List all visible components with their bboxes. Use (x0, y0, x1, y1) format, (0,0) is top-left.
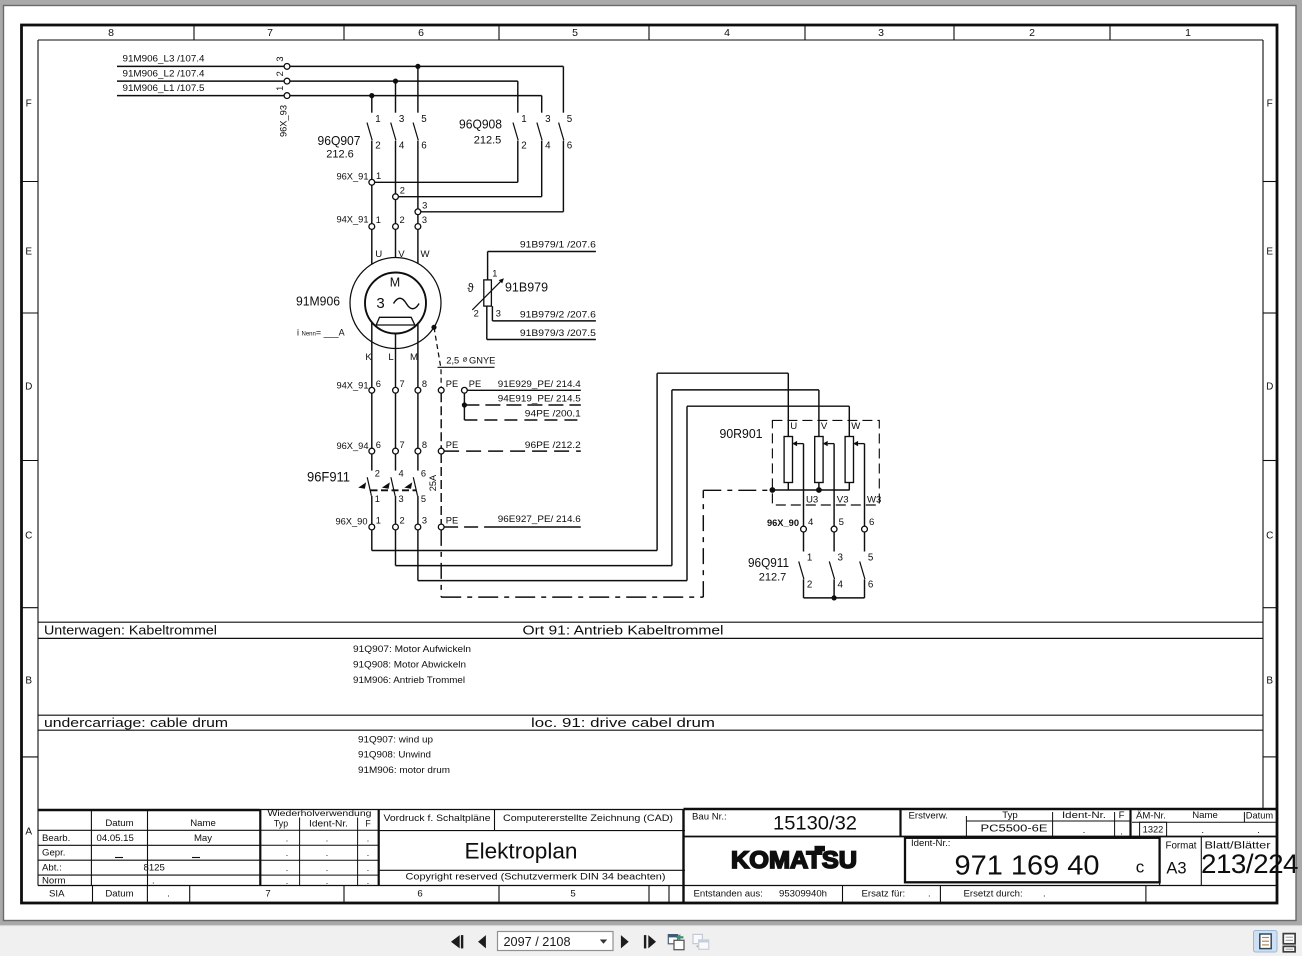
svg-text:2097 / 2108: 2097 / 2108 (504, 934, 571, 949)
svg-text:8: 8 (422, 379, 427, 389)
svg-text:91B979: 91B979 (505, 280, 548, 295)
svg-text:.: . (1201, 825, 1204, 836)
svg-text:3: 3 (496, 309, 501, 319)
svg-text:1: 1 (376, 171, 381, 181)
svg-text:Wiederholverwendung: Wiederholverwendung (268, 809, 373, 818)
svg-text:.: . (326, 848, 328, 858)
svg-text:E: E (1266, 247, 1273, 258)
svg-text:.: . (152, 875, 155, 886)
svg-text:94E919_PE/ 214.5: 94E919_PE/ 214.5 (498, 394, 581, 404)
svg-text:SIA: SIA (49, 888, 65, 899)
svg-text:4: 4 (724, 27, 730, 39)
svg-text:.: . (1043, 888, 1046, 899)
svg-text:8: 8 (422, 440, 427, 450)
svg-text:PC5500-6E: PC5500-6E (981, 824, 1049, 835)
svg-text:K: K (365, 352, 372, 363)
svg-text:6: 6 (421, 141, 427, 152)
svg-text:91M906: Antrieb Trommel: 91M906: Antrieb Trommel (353, 675, 465, 685)
svg-text:7: 7 (400, 379, 405, 389)
svg-text:Datum: Datum (105, 888, 133, 899)
svg-text:.: . (286, 848, 288, 858)
svg-text:2: 2 (275, 71, 285, 76)
svg-text:7: 7 (265, 888, 270, 899)
svg-text:D: D (1266, 382, 1273, 393)
svg-text:Ident-Nr.: Ident-Nr. (1062, 810, 1106, 821)
svg-text:1: 1 (807, 553, 812, 564)
svg-text:2: 2 (375, 468, 380, 478)
svg-text:Typ: Typ (274, 818, 288, 828)
svg-text:91M906_L2 /107.4: 91M906_L2 /107.4 (123, 68, 205, 78)
svg-text:Typ: Typ (1002, 810, 1017, 821)
svg-text:5: 5 (421, 114, 427, 125)
svg-text:4: 4 (399, 141, 405, 152)
svg-text:1: 1 (376, 516, 381, 526)
svg-text:25A: 25A (428, 474, 438, 491)
svg-text:91B979/1 /207.6: 91B979/1 /207.6 (520, 240, 596, 250)
svg-text:.: . (367, 863, 369, 873)
svg-text:D: D (25, 382, 32, 393)
svg-text:96Q911: 96Q911 (748, 555, 789, 570)
svg-text:1: 1 (275, 86, 285, 91)
svg-text:96X_93: 96X_93 (279, 105, 289, 137)
svg-text:96X_94: 96X_94 (336, 441, 368, 451)
svg-text:M: M (390, 276, 400, 290)
svg-text:.: . (167, 888, 170, 899)
svg-text:6: 6 (869, 517, 874, 528)
svg-text:Name: Name (1192, 810, 1218, 821)
svg-text:.: . (1083, 825, 1086, 836)
svg-text:F: F (1119, 810, 1125, 821)
svg-text:PE: PE (446, 379, 458, 389)
svg-text:Bearb.: Bearb. (42, 833, 70, 844)
svg-text:.: . (286, 876, 288, 886)
svg-text:A3: A3 (1166, 859, 1186, 877)
svg-text:F: F (26, 99, 32, 110)
svg-text:95309940h: 95309940h (779, 888, 827, 899)
svg-text:PE: PE (446, 516, 458, 526)
svg-text:5: 5 (421, 494, 426, 504)
svg-text:96F911: 96F911 (307, 469, 350, 485)
svg-text:C: C (25, 531, 32, 542)
svg-text:PE: PE (446, 440, 458, 450)
svg-text:W3: W3 (867, 494, 881, 505)
svg-text:.: . (367, 876, 369, 886)
svg-text:Elektroplan: Elektroplan (465, 838, 578, 863)
svg-text:KOMATSU: KOMATSU (731, 847, 857, 874)
svg-text:6: 6 (376, 440, 381, 450)
svg-text:91B979/3 /207.5: 91B979/3 /207.5 (520, 328, 596, 338)
svg-text:Entstanden aus:: Entstanden aus: (694, 888, 763, 899)
svg-text:91B979/2 /207.6: 91B979/2 /207.6 (520, 309, 596, 319)
svg-text:91E929_PE/ 214.4: 91E929_PE/ 214.4 (498, 379, 581, 389)
svg-text:1: 1 (375, 494, 380, 504)
svg-text:91Q908: Motor Abwickeln: 91Q908: Motor Abwickeln (353, 660, 466, 670)
svg-text:96Q908: 96Q908 (459, 117, 502, 132)
svg-text:⌀: ⌀ (463, 354, 468, 363)
svg-text:5: 5 (567, 114, 573, 125)
svg-text:4: 4 (545, 141, 551, 152)
svg-text:2: 2 (375, 141, 380, 152)
svg-text:96X_91: 96X_91 (336, 172, 368, 182)
svg-text:4: 4 (838, 579, 844, 590)
svg-text:2: 2 (521, 141, 526, 152)
svg-text:2: 2 (474, 309, 479, 319)
svg-text:212.6: 212.6 (326, 149, 354, 161)
svg-text:B: B (25, 676, 32, 687)
svg-text:.: . (928, 888, 931, 899)
svg-text:Computererstellte Zeichnung (C: Computererstellte Zeichnung (CAD) (503, 812, 673, 823)
svg-text:Vordruck f. Schaltpläne: Vordruck f. Schaltpläne (384, 812, 491, 823)
svg-text:6: 6 (868, 579, 874, 590)
svg-text:Erstverw.: Erstverw. (909, 811, 948, 822)
svg-text:Ident-Nr.: Ident-Nr. (309, 818, 348, 828)
svg-text:Gepr.: Gepr. (42, 848, 65, 859)
svg-text:Ident-Nr.:: Ident-Nr.: (911, 838, 950, 849)
svg-text:E: E (25, 247, 32, 258)
svg-text:3: 3 (838, 553, 844, 564)
svg-text:Abt.:: Abt.: (42, 862, 62, 873)
svg-text:1: 1 (376, 215, 381, 225)
svg-text:2,5: 2,5 (446, 356, 459, 366)
svg-text:Unterwagen: Kabeltrommel: Unterwagen: Kabeltrommel (44, 623, 217, 637)
svg-text:2: 2 (400, 185, 405, 195)
svg-text:1: 1 (521, 114, 526, 125)
svg-text:Ersetzt durch:: Ersetzt durch: (964, 888, 1023, 899)
svg-text:96X_90: 96X_90 (335, 517, 367, 527)
svg-text:2: 2 (807, 579, 812, 590)
svg-text:6: 6 (421, 468, 426, 478)
svg-text:V3: V3 (837, 494, 849, 505)
svg-text:U: U (375, 249, 382, 260)
svg-text:94X_91: 94X_91 (336, 215, 368, 225)
svg-text:91Q908: Unwind: 91Q908: Unwind (358, 749, 431, 759)
svg-text:1: 1 (492, 268, 497, 278)
svg-text:96X_90: 96X_90 (767, 518, 799, 528)
svg-text:1322: 1322 (1143, 825, 1164, 835)
svg-text:91M906: 91M906 (296, 294, 340, 309)
svg-text:96E927_PE/ 214.6: 96E927_PE/ 214.6 (498, 514, 581, 524)
svg-text:ÄM-Nr.: ÄM-Nr. (1136, 811, 1166, 822)
svg-text:Ort 91: Antrieb Kabeltrommel: Ort 91: Antrieb Kabeltrommel (523, 623, 724, 637)
svg-text:F: F (1267, 99, 1273, 110)
svg-text:.: . (326, 833, 328, 843)
svg-text:L: L (388, 352, 394, 363)
svg-text:.: . (326, 863, 328, 873)
svg-text:7: 7 (400, 440, 405, 450)
svg-text:A: A (25, 827, 32, 838)
svg-text:3: 3 (399, 114, 405, 125)
svg-text:6: 6 (376, 379, 381, 389)
svg-text:6: 6 (567, 141, 573, 152)
svg-text:212.7: 212.7 (759, 572, 787, 584)
svg-text:.: . (367, 833, 369, 843)
svg-text:.: . (286, 833, 288, 843)
svg-text:U: U (790, 421, 797, 432)
svg-text:undercarriage: cable drum: undercarriage: cable drum (44, 716, 228, 730)
svg-text:6: 6 (417, 888, 422, 899)
svg-text:M: M (410, 352, 418, 363)
svg-text:C: C (1266, 531, 1273, 542)
svg-text:PE: PE (469, 379, 481, 389)
svg-text:213/224: 213/224 (1201, 849, 1298, 879)
svg-text:8125: 8125 (144, 862, 165, 873)
svg-text:4: 4 (808, 517, 814, 528)
svg-text:2: 2 (400, 516, 405, 526)
svg-text:GNYE: GNYE (469, 356, 495, 366)
svg-text:04.05.15: 04.05.15 (97, 833, 134, 844)
svg-text:91Q907: wind up: 91Q907: wind up (358, 734, 433, 744)
svg-text:3: 3 (878, 27, 884, 39)
svg-text:91M906_L1 /107.5: 91M906_L1 /107.5 (123, 83, 205, 93)
svg-text:c: c (1136, 858, 1145, 877)
svg-text:1: 1 (375, 114, 380, 125)
svg-text:5: 5 (868, 553, 874, 564)
svg-text:5: 5 (570, 888, 575, 899)
svg-text:Norm: Norm (42, 875, 65, 886)
svg-text:Format: Format (1165, 840, 1196, 851)
svg-text:2: 2 (1029, 27, 1035, 39)
svg-text:96PE /212.2: 96PE /212.2 (525, 440, 581, 450)
svg-text:V: V (821, 421, 828, 432)
svg-text:Datum: Datum (105, 818, 133, 829)
svg-text:3: 3 (422, 516, 427, 526)
svg-text:loc. 91: drive cabel drum: loc. 91: drive cabel drum (531, 716, 715, 730)
svg-text:2: 2 (400, 215, 405, 225)
svg-text:91M906_L3 /107.4: 91M906_L3 /107.4 (123, 54, 205, 64)
svg-text:971 169 40: 971 169 40 (955, 850, 1100, 881)
svg-text:94X_91: 94X_91 (336, 380, 368, 390)
svg-text:96Q907: 96Q907 (318, 133, 361, 148)
svg-text:3: 3 (275, 56, 285, 61)
svg-text:3: 3 (399, 494, 404, 504)
svg-text:Name: Name (190, 818, 216, 829)
svg-text:Datum: Datum (1246, 811, 1274, 821)
svg-text:5: 5 (572, 27, 578, 39)
svg-text:91Q907: Motor Aufwickeln: 91Q907: Motor Aufwickeln (353, 644, 471, 654)
svg-text:Ersatz für:: Ersatz für: (862, 888, 906, 899)
svg-text:Copyright reserved (Schutzverm: Copyright reserved (Schutzvermerk DIN 34… (406, 872, 666, 883)
svg-text:W: W (851, 421, 861, 432)
svg-text:.: . (1257, 825, 1260, 836)
svg-text:3: 3 (545, 114, 551, 125)
svg-text:90R901: 90R901 (720, 426, 763, 441)
svg-text:91M906: motor drum: 91M906: motor drum (358, 765, 450, 775)
svg-text:Bau Nr.:: Bau Nr.: (692, 812, 727, 823)
svg-text:6: 6 (418, 27, 424, 39)
svg-text:B: B (1266, 676, 1273, 687)
svg-text:7: 7 (267, 27, 273, 39)
svg-text:94PE /200.1: 94PE /200.1 (525, 409, 581, 419)
svg-text:U3: U3 (806, 494, 818, 505)
svg-text:8: 8 (108, 27, 114, 39)
svg-text:.: . (286, 863, 288, 873)
svg-text:3: 3 (422, 200, 427, 210)
svg-text:1: 1 (1185, 27, 1191, 39)
svg-text:ϑ: ϑ (467, 283, 474, 295)
svg-text:5: 5 (839, 517, 844, 528)
svg-text:3: 3 (422, 215, 427, 225)
svg-text:May: May (194, 833, 212, 844)
svg-text:4: 4 (399, 468, 404, 478)
svg-text:W: W (421, 249, 431, 260)
svg-text:F: F (365, 818, 371, 828)
svg-text:212.5: 212.5 (474, 135, 502, 147)
svg-text:3: 3 (376, 295, 384, 312)
svg-text:.: . (326, 876, 328, 886)
svg-text:15130/32: 15130/32 (773, 813, 857, 835)
svg-text:.: . (367, 848, 369, 858)
